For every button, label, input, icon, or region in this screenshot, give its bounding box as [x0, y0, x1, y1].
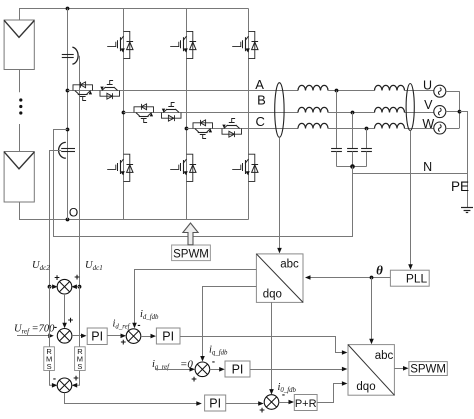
wire A mid — [328, 90, 375, 92]
svg-text:+: + — [54, 273, 60, 284]
svg-text:-: - — [137, 320, 140, 331]
svg-text:A: A — [255, 77, 264, 92]
summing S2 — [57, 329, 72, 344]
svg-text:abc: abc — [375, 350, 394, 362]
wire phase C — [187, 128, 299, 130]
wire Udc1 sense — [79, 56, 81, 287]
svg-text:V: V — [424, 98, 433, 112]
node B-chain to leg1 — [122, 111, 126, 115]
svg-text:+: + — [259, 405, 265, 414]
transistor B mid-switch 2 — [162, 113, 182, 119]
svg-text:θ: θ — [376, 263, 383, 278]
wire phase A — [68, 90, 299, 92]
node B cap tap — [351, 111, 355, 115]
AC source U — [434, 85, 446, 97]
node midpoint tap on rail — [66, 128, 70, 132]
wire PI4 to S6 — [226, 403, 261, 405]
wire C mid — [328, 128, 375, 130]
summing S1 — [50, 286, 55, 288]
wire DC-link middle rail — [67, 9, 69, 220]
wire RMS1 to S4 — [50, 371, 55, 386]
svg-text:PI: PI — [91, 330, 103, 344]
ground PE — [461, 207, 473, 209]
wire iq_fdb feedback — [203, 287, 257, 358]
wire S4 to PI4 — [65, 393, 199, 404]
svg-text:U: U — [423, 79, 432, 93]
svg-text:PI: PI — [232, 362, 244, 376]
AC source W — [434, 122, 446, 134]
svg-text:C: C — [256, 114, 265, 129]
inductor L2b — [375, 107, 405, 112]
svg-text:+: + — [191, 374, 197, 385]
wire A to grid — [404, 90, 434, 92]
AC source V — [434, 106, 446, 118]
wire S1 to S2 — [64, 294, 66, 325]
wire S5 to PI3 — [210, 369, 222, 371]
svg-text:+: + — [74, 272, 80, 283]
capacitor Cf3 — [366, 129, 368, 149]
node Udc2 junction — [48, 285, 52, 289]
SPWM block 2 — [409, 362, 447, 376]
wire S3 to PI2 — [141, 336, 153, 338]
wire top DC bus — [19, 8, 249, 10]
wire to PV2 — [19, 124, 21, 151]
transistor A mid-switch 2 — [100, 91, 120, 97]
svg-text:-: - — [212, 357, 215, 368]
wire B mid — [328, 112, 375, 114]
node theta — [370, 276, 374, 280]
svg-text:+: + — [73, 373, 79, 384]
svg-text:-: - — [54, 322, 57, 333]
transistor C mid-switch 2 — [222, 129, 242, 135]
wire midpoint link to filter neutral — [54, 130, 353, 237]
wire N line — [353, 173, 468, 175]
svg-text:dqo: dqo — [356, 381, 375, 393]
svg-text:W: W — [422, 117, 434, 131]
node O on bottom bus — [66, 218, 70, 222]
inductor L1c — [298, 123, 328, 128]
wire filter common — [337, 166, 367, 168]
svg-text:+: + — [121, 337, 127, 348]
block PI 3 — [225, 361, 250, 377]
summing S6 — [264, 395, 279, 410]
svg-text:O: O — [69, 206, 78, 220]
wire leg 2 — [186, 9, 188, 220]
svg-text:P+R: P+R — [295, 398, 317, 410]
wire B to grid — [404, 112, 434, 114]
wire star to N — [460, 112, 468, 174]
block abc/dqo measure — [256, 254, 303, 303]
svg-text:+: + — [68, 315, 74, 326]
arrow SPWM to bridge — [183, 223, 198, 245]
PLL block — [390, 270, 429, 286]
block P+R — [294, 395, 317, 411]
SPWM block 1 — [172, 245, 211, 261]
block PI 2 — [156, 328, 180, 344]
block RMS 1 — [44, 347, 55, 371]
wire block2 to SPWM2 — [394, 368, 405, 370]
wire iq_ref input — [155, 369, 192, 371]
node Udc1 junction — [78, 285, 82, 289]
node filter neutral — [350, 164, 355, 169]
transistor Q1 top IGBT leg 1 — [124, 31, 130, 58]
wire Uref input — [17, 335, 51, 337]
svg-text:-: - — [282, 390, 285, 401]
wire PV2 to bottom bus — [19, 202, 21, 220]
inductor L1a — [298, 85, 328, 90]
wire i0_fdb feedback — [271, 302, 273, 391]
svg-text:abc: abc — [280, 259, 299, 271]
summing S4 — [57, 378, 72, 393]
wire S2 to PI1 — [72, 335, 84, 337]
summing S5 — [195, 362, 210, 377]
svg-text:S: S — [77, 362, 82, 371]
wire S6 to P+R — [279, 402, 291, 404]
wire Udc2 sense tap — [50, 151, 62, 287]
transistor Q6 bottom IGBT leg 3 — [249, 154, 255, 181]
capacitor Cf1 — [336, 91, 338, 149]
transistor Q4 bottom IGBT leg 2 — [187, 154, 193, 181]
svg-text:dqo: dqo — [263, 289, 282, 301]
block dqo/abc modulate — [348, 345, 394, 396]
svg-text:-: - — [53, 374, 56, 385]
wire Udc2 to RMS1 — [49, 287, 51, 347]
node top bus / DC-link junction — [66, 7, 70, 11]
dots series continuation — [19, 98, 22, 101]
block PI 4 — [205, 395, 226, 411]
svg-text:PLL: PLL — [406, 271, 428, 285]
wire leg 3 — [248, 9, 250, 220]
transistor B mid-switch 1 — [134, 107, 154, 113]
wire sensor2 to PLL — [410, 131, 412, 267]
capacitor C1 — [62, 54, 74, 56]
node star point — [458, 110, 462, 114]
PV string 1 — [4, 20, 34, 70]
block RMS 2 — [75, 347, 86, 371]
node A-chain to rail — [66, 89, 70, 93]
wire bottom DC bus — [19, 219, 249, 221]
svg-text:S: S — [47, 362, 52, 371]
transistor Q2 bottom IGBT leg 1 — [124, 154, 130, 181]
wire P+R to block2 input3 — [317, 384, 344, 403]
inductor L2a — [375, 85, 405, 90]
transistor C mid-switch 1 — [193, 123, 213, 129]
wire id_fdb feedback — [135, 270, 257, 325]
capacitor C2 — [61, 148, 75, 150]
transistor A mid-switch 1 — [73, 85, 93, 91]
svg-text:=700: =700 — [32, 324, 56, 335]
summing S3 — [126, 329, 141, 344]
svg-text:PE: PE — [451, 179, 469, 194]
node A cap tap — [335, 89, 339, 93]
transistor Q3 top IGBT leg 2 — [187, 31, 193, 58]
svg-text:SPWM: SPWM — [410, 364, 446, 376]
wire RMS2 to S4 — [75, 371, 80, 386]
wire PE drop — [467, 174, 469, 208]
wire leg 1 — [123, 9, 125, 220]
wire Udc1 to RMS2 — [79, 287, 81, 347]
wire PI1 to S3 — [107, 335, 122, 337]
node C cap tap — [365, 127, 369, 131]
inductor L1b — [298, 107, 328, 112]
svg-text:PI: PI — [162, 329, 174, 343]
wire theta to abc/dqo 2 — [371, 278, 373, 341]
wire PV1 bottom — [19, 69, 21, 92]
wire PI2 to block2 input1 — [180, 337, 344, 353]
capacitor Cf2 — [352, 113, 354, 149]
wire PI3 to block2 input2 — [250, 369, 344, 371]
block PI 1 — [87, 328, 107, 345]
wire PV1 to top bus — [19, 9, 21, 21]
svg-text:PI: PI — [209, 396, 221, 410]
svg-text:SPWM: SPWM — [173, 248, 209, 260]
wire theta — [308, 277, 390, 279]
wire sensor1 to abc/dqo — [279, 137, 281, 249]
wire phase B — [124, 112, 299, 114]
voltage sensor ellipse 2 — [406, 84, 414, 131]
node C-chain to leg2 — [185, 127, 189, 131]
PV string 2 — [4, 152, 34, 203]
wire grid star — [446, 91, 460, 93]
wire C to grid — [404, 128, 434, 130]
svg-text:B: B — [257, 93, 266, 108]
transistor Q5 top IGBT leg 3 — [249, 31, 255, 58]
inductor L2c — [375, 123, 405, 128]
svg-text:N: N — [423, 160, 432, 174]
current sensor ellipse 1 — [275, 83, 284, 138]
